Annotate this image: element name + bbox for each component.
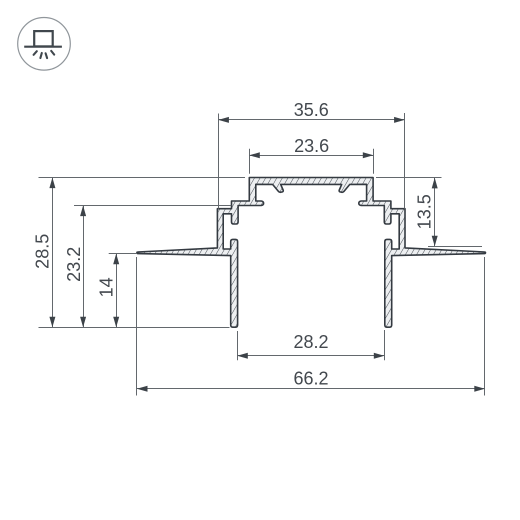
svg-text:23.6: 23.6 (294, 136, 329, 156)
dimension 13.5 (top to wing top) (376, 178, 482, 247)
svg-text:66.2: 66.2 (293, 369, 328, 389)
dimension 23.6 (top opening width) (249, 136, 373, 174)
aluminium profile cross-section (hatched) (137, 178, 486, 328)
icon mounting surface line (24, 46, 62, 48)
svg-text:35.6: 35.6 (294, 100, 329, 120)
svg-text:14: 14 (96, 277, 116, 297)
svg-text:23.2: 23.2 (64, 247, 84, 282)
svg-text:28.5: 28.5 (32, 234, 52, 269)
svg-text:28.2: 28.2 (293, 332, 328, 352)
recessed-mount icon circle (18, 18, 71, 71)
dimension 28.2 (between legs) (237, 330, 384, 360)
dimension 23.2 (flange underside to leg bottom) (64, 206, 231, 328)
svg-text:13.5: 13.5 (414, 194, 434, 229)
dimension 35.6 (width across outer walls) (218, 100, 404, 208)
icon lamp housing (34, 31, 53, 46)
dimension 28.5 (overall height) (32, 178, 245, 328)
dimension 66.2 (overall width across wings) (137, 257, 485, 396)
dimension 14 (wing underside to leg bottom) (96, 254, 137, 328)
icon light rays (34, 51, 55, 58)
